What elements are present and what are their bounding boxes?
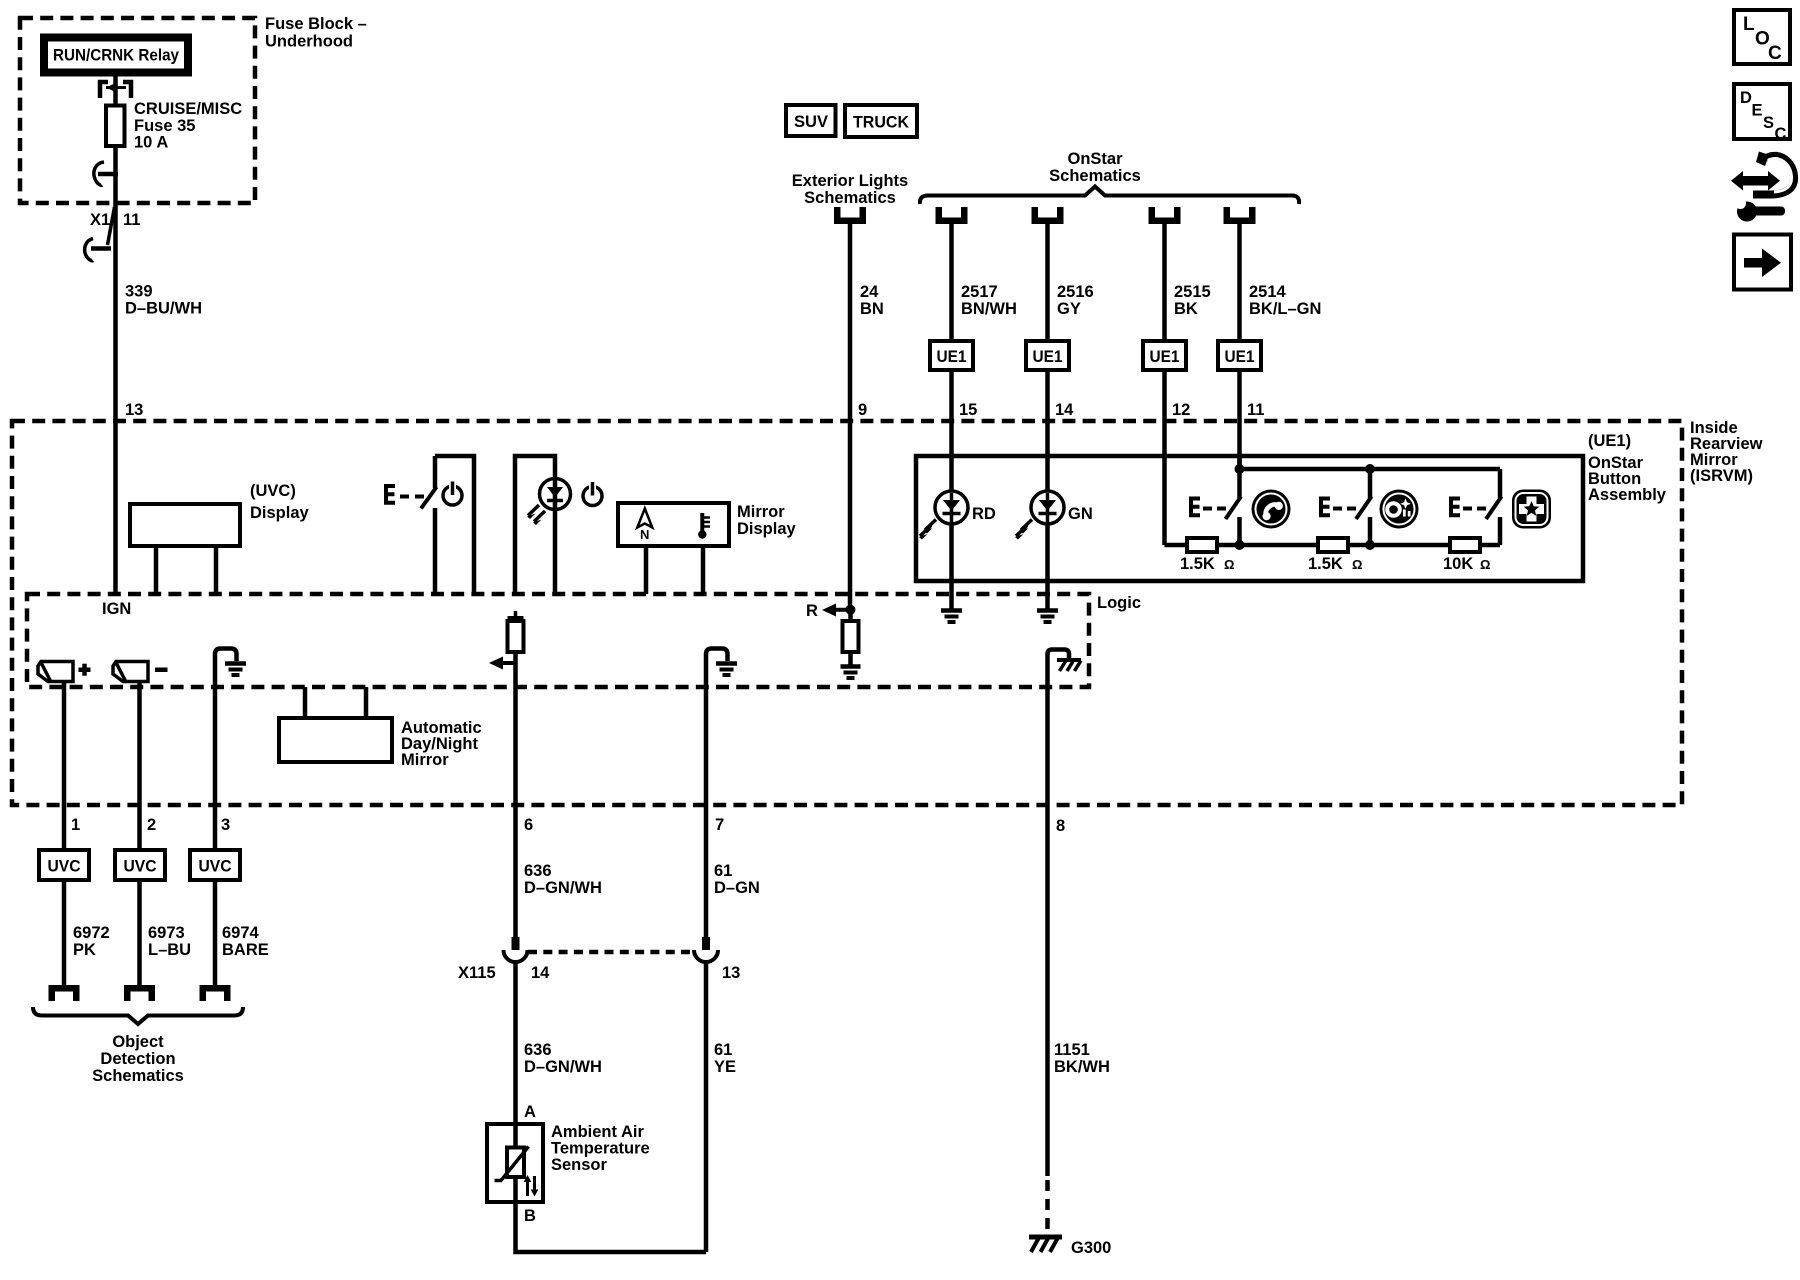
svg-text:Sensor: Sensor xyxy=(551,1156,608,1174)
svg-text:YE: YE xyxy=(714,1058,736,1076)
svg-text:IGN: IGN xyxy=(102,600,131,618)
ground (wire 9) xyxy=(841,667,861,679)
wire 2514 lower xyxy=(1237,370,1242,469)
off-page connector wire 2514 xyxy=(1224,207,1256,224)
fuse block underhood dashed box xyxy=(20,18,255,203)
automatic day/night mirror box xyxy=(279,718,392,762)
label 636 D-GN/WH upper xyxy=(524,862,602,897)
LED D1 (mirror) xyxy=(527,479,571,526)
off-page connector down (wire 6973) xyxy=(124,985,155,1001)
svg-text:10K: 10K xyxy=(1443,555,1473,573)
svg-text:R: R xyxy=(806,602,818,620)
pin 11 label xyxy=(1247,401,1264,419)
button OnStar icon xyxy=(1380,490,1419,529)
photo sensor minus xyxy=(113,662,168,682)
svg-text:OnStar: OnStar xyxy=(1067,150,1123,168)
off-page connector down (wire 6972) xyxy=(49,985,80,1001)
resistor R2 1.5K xyxy=(1318,538,1348,552)
wire 2516 GY upper xyxy=(1045,224,1050,341)
label Logic xyxy=(1097,594,1141,612)
svg-text:14: 14 xyxy=(1055,401,1074,419)
svg-text:11: 11 xyxy=(123,211,140,229)
svg-text:UE1: UE1 xyxy=(1033,348,1063,366)
mirror box legs to logic xyxy=(305,687,366,718)
svg-text:636: 636 xyxy=(524,1041,552,1059)
ambient air temperature sensor box xyxy=(487,1124,543,1202)
tag TRUCK xyxy=(845,105,917,137)
svg-text:1.5K: 1.5K xyxy=(1180,555,1215,573)
logic dashed box xyxy=(27,594,1089,687)
svg-text:UE1: UE1 xyxy=(1225,348,1255,366)
label Exterior Lights Schematics xyxy=(792,172,908,207)
svg-text:TRUCK: TRUCK xyxy=(853,114,909,132)
ground bars (wire 3) xyxy=(225,664,246,676)
connector UE1 (wire 2516) xyxy=(1026,341,1069,370)
connector UVC (wire 6972) xyxy=(39,805,89,985)
svg-text:Schematics: Schematics xyxy=(804,189,896,207)
label 2516 GY xyxy=(1057,283,1094,318)
wire 2515 lower xyxy=(1162,370,1167,545)
off-page connector for wire 24 xyxy=(834,207,866,224)
pin 9 label xyxy=(858,401,867,419)
svg-text:L–BU: L–BU xyxy=(148,941,191,959)
terminal symbol upper xyxy=(94,162,118,185)
svg-text:Detection: Detection xyxy=(100,1050,175,1068)
brace OnStar schematics xyxy=(920,187,1299,205)
svg-text:Fuse 35: Fuse 35 xyxy=(134,117,195,135)
wire 13 inside ISRVM xyxy=(113,421,118,594)
label 10K ohm xyxy=(1443,555,1490,573)
pin 15 label xyxy=(959,401,977,419)
wire fuse to X1 xyxy=(113,146,118,421)
icon LOC box xyxy=(1734,10,1790,64)
thermometer icon xyxy=(698,513,710,539)
svg-text:Mirror: Mirror xyxy=(737,503,785,521)
fuse holder clip terminals xyxy=(100,82,131,98)
label RD xyxy=(972,505,996,523)
ISRVM inside rearview mirror dashed box xyxy=(12,421,1682,805)
label CRUISE/MISC Fuse 35 10 A xyxy=(134,100,242,152)
svg-text:Schematics: Schematics xyxy=(1049,167,1141,185)
pin B label xyxy=(524,1207,536,1225)
label 2514 BK/L-GN xyxy=(1249,283,1321,318)
svg-text:BARE: BARE xyxy=(222,941,269,959)
svg-text:14: 14 xyxy=(531,964,550,982)
svg-text:11: 11 xyxy=(1247,401,1264,419)
svg-text:BN: BN xyxy=(860,300,884,318)
svg-text:D: D xyxy=(1740,89,1752,107)
ground (wire 7) hook xyxy=(706,649,728,806)
LED RD xyxy=(919,491,968,540)
svg-text:(UE1): (UE1) xyxy=(1588,432,1631,450)
svg-text:15: 15 xyxy=(959,401,977,419)
connector UE1 (wire 2515) xyxy=(1143,341,1186,370)
svg-text:C: C xyxy=(1775,125,1787,143)
svg-text:D–GN/WH: D–GN/WH xyxy=(524,1058,602,1076)
switch E symbol (mirror) xyxy=(384,484,424,505)
button emergency cross icon xyxy=(1512,490,1551,529)
label GN xyxy=(1068,505,1093,523)
svg-text:1151: 1151 xyxy=(1054,1041,1090,1059)
ground bars (wire 7) xyxy=(716,664,737,676)
svg-text:RUN/CRNK Relay: RUN/CRNK Relay xyxy=(53,47,180,65)
label G300 xyxy=(1071,1239,1111,1257)
resistor R3 10K xyxy=(1450,538,1480,552)
label 6973 L-BU xyxy=(148,924,191,959)
svg-text:339: 339 xyxy=(125,283,153,301)
svg-text:PK: PK xyxy=(73,941,96,959)
ground (RD LED) xyxy=(941,611,962,623)
wire pin 1 xyxy=(62,682,67,805)
pin 14 label xyxy=(1055,401,1074,419)
label 1.5K ohm xyxy=(1180,555,1234,573)
label Inside Rearview Mirror (ISRVM) xyxy=(1690,419,1763,485)
svg-text:24: 24 xyxy=(860,283,879,301)
label Mirror Display xyxy=(737,503,797,538)
icon jump arrow with wrench xyxy=(1731,152,1794,222)
connector X115 pin 14 (male+female) xyxy=(504,937,528,1124)
power icon 2 xyxy=(583,482,602,506)
label (UE1) OnStar Button Assembly xyxy=(1588,432,1667,504)
wire RD LED to ground xyxy=(949,522,954,609)
label 61 D-GN xyxy=(714,862,760,897)
svg-text:D–GN/WH: D–GN/WH xyxy=(524,879,602,897)
label 2515 BK xyxy=(1174,283,1211,318)
svg-text:2514: 2514 xyxy=(1249,283,1287,301)
svg-text:1: 1 xyxy=(71,816,80,834)
brace object detection xyxy=(33,1007,243,1024)
switch SW1 (phone) xyxy=(1226,469,1242,545)
wire 9 resistor branch: R arrow xyxy=(806,602,856,620)
dashed wire to ground xyxy=(1045,1180,1050,1235)
mirror display box xyxy=(618,503,729,594)
svg-text:S: S xyxy=(1763,114,1774,132)
pin 13 label xyxy=(125,401,143,419)
svg-text:Underhood: Underhood xyxy=(265,33,353,51)
ground G300 xyxy=(1029,1237,1062,1252)
svg-text:Ω: Ω xyxy=(1480,557,1490,572)
svg-text:BK: BK xyxy=(1174,300,1198,318)
label 2517 BN/WH xyxy=(961,283,1017,318)
svg-text:Ambient Air: Ambient Air xyxy=(551,1123,644,1141)
node IGN xyxy=(102,600,131,618)
label 6974 BARE xyxy=(222,924,269,959)
svg-text:(UVC): (UVC) xyxy=(250,482,296,500)
LED pillar (mirror backlight) xyxy=(515,456,555,594)
svg-text:UVC: UVC xyxy=(48,858,81,876)
connector UVC (wire 6974) xyxy=(190,805,240,985)
pin A label xyxy=(524,1103,536,1121)
wire 2517 BN/WH upper xyxy=(949,224,954,341)
dashed connector link X115 xyxy=(528,950,694,955)
photo sensor plus xyxy=(38,662,91,682)
LED GN xyxy=(1015,491,1064,540)
bus wire top (assembly) xyxy=(1235,456,1501,474)
chassis ground hook (wire 8) xyxy=(1048,650,1082,1177)
switch S1 power (mirror) xyxy=(421,456,474,594)
pin 7 label xyxy=(715,816,724,834)
label X115 xyxy=(458,964,496,982)
svg-text:2: 2 xyxy=(147,816,156,834)
svg-text:9: 9 xyxy=(858,401,867,419)
switch SW3 (emergency) xyxy=(1486,469,1502,545)
thermistor feed resistor (wire 6) xyxy=(489,611,524,938)
off-page connector wire 2516 xyxy=(1032,207,1064,224)
resistor (photocell circuit) xyxy=(843,609,859,665)
pin 12 label xyxy=(1172,401,1190,419)
compass icon xyxy=(637,509,652,543)
svg-text:A: A xyxy=(524,1103,536,1121)
ground (GN LED) xyxy=(1037,611,1058,623)
svg-text:UE1: UE1 xyxy=(937,348,967,366)
tag SUV xyxy=(786,105,836,136)
svg-text:B: B xyxy=(524,1207,536,1225)
svg-text:Display: Display xyxy=(737,520,797,538)
svg-text:2515: 2515 xyxy=(1174,283,1211,301)
wire GN LED to ground xyxy=(1045,522,1050,609)
svg-text:Ω: Ω xyxy=(1224,557,1234,572)
wire 24 BN xyxy=(848,224,853,610)
resistor network row xyxy=(1165,540,1501,550)
label 6972 PK xyxy=(73,924,110,959)
wire 2517 lower xyxy=(949,370,954,491)
wire loop sensor to pin 13 xyxy=(516,1202,707,1252)
svg-text:BN/WH: BN/WH xyxy=(961,300,1017,318)
svg-text:2516: 2516 xyxy=(1057,283,1094,301)
OnStar button assembly box xyxy=(916,456,1583,581)
svg-text:7: 7 xyxy=(715,816,724,834)
svg-text:6972: 6972 xyxy=(73,924,110,942)
svg-text:D–GN: D–GN xyxy=(714,879,760,897)
off-page connector down (wire 6974) xyxy=(200,985,231,1001)
svg-text:RD: RD xyxy=(972,505,996,523)
label 13 xyxy=(722,964,740,982)
ground (wire 3) hook xyxy=(215,649,237,806)
switch E symbol 3 xyxy=(1449,497,1486,518)
label 14 xyxy=(531,964,550,982)
svg-text:BK/WH: BK/WH xyxy=(1054,1058,1110,1076)
svg-text:3: 3 xyxy=(221,816,230,834)
svg-text:Display: Display xyxy=(250,504,310,522)
svg-text:L: L xyxy=(1743,14,1755,35)
off-page connector wire 2515 xyxy=(1149,207,1181,224)
relay K: RUN/CRNK Relay xyxy=(40,34,192,77)
wire 2514 BK/L-GN upper xyxy=(1237,224,1242,341)
svg-text:SUV: SUV xyxy=(794,113,828,131)
svg-text:C: C xyxy=(1768,43,1782,64)
svg-text:6: 6 xyxy=(524,816,533,834)
svg-text:UVC: UVC xyxy=(199,858,232,876)
wire relay to fuse xyxy=(113,77,118,107)
connector UE1 (wire 2514) xyxy=(1218,341,1261,370)
svg-text:Object: Object xyxy=(112,1033,164,1051)
power icon 1 xyxy=(443,482,462,506)
label 61 YE xyxy=(714,1041,736,1076)
svg-text:CRUISE/MISC: CRUISE/MISC xyxy=(134,100,242,118)
thermistor symbol xyxy=(495,1147,539,1197)
svg-text:2517: 2517 xyxy=(961,283,998,301)
icon forward arrow box xyxy=(1734,235,1791,290)
svg-text:12: 12 xyxy=(1172,401,1190,419)
svg-text:8: 8 xyxy=(1056,817,1065,835)
svg-text:Temperature: Temperature xyxy=(551,1140,650,1158)
svg-text:X115: X115 xyxy=(458,964,496,982)
svg-text:(ISRVM): (ISRVM) xyxy=(1690,467,1753,485)
label 1151 BK/WH xyxy=(1054,1041,1110,1076)
svg-text:D–BU/WH: D–BU/WH xyxy=(125,300,202,318)
svg-text:13: 13 xyxy=(125,401,143,419)
pin 6 label xyxy=(524,816,533,834)
svg-text:Logic: Logic xyxy=(1097,594,1141,612)
icon DESC box xyxy=(1734,84,1790,143)
svg-text:10 A: 10 A xyxy=(134,134,168,152)
svg-text:Mirror: Mirror xyxy=(401,751,449,769)
switch SW2 (OnStar) xyxy=(1356,469,1372,545)
svg-text:BK/L–GN: BK/L–GN xyxy=(1249,300,1321,318)
wire 2515 BK upper xyxy=(1162,224,1167,341)
svg-text:6974: 6974 xyxy=(222,924,260,942)
svg-text:UVC: UVC xyxy=(124,858,157,876)
label (UVC) Display xyxy=(250,482,310,522)
resistor R1 1.5K xyxy=(1187,538,1217,552)
svg-text:G300: G300 xyxy=(1071,1239,1111,1257)
connector UVC (wire 6973) xyxy=(115,805,165,985)
svg-text:GN: GN xyxy=(1068,505,1093,523)
terminal symbol lower xyxy=(85,239,111,261)
svg-text:61: 61 xyxy=(714,862,732,880)
svg-text:Exterior Lights: Exterior Lights xyxy=(792,172,908,190)
svg-text:N: N xyxy=(640,527,649,542)
wire pin 2 xyxy=(137,682,142,805)
label 1.5K ohm (2) xyxy=(1308,555,1362,573)
svg-text:Schematics: Schematics xyxy=(92,1067,184,1085)
label OnStar Schematics xyxy=(1049,150,1141,185)
off-page connector wire 2517 xyxy=(936,207,968,224)
fuse F35: CRUISE/MISC Fuse 35 10A xyxy=(106,106,125,147)
svg-text:61: 61 xyxy=(714,1041,732,1059)
svg-text:Fuse Block –: Fuse Block – xyxy=(265,15,367,33)
svg-text:Ω: Ω xyxy=(1352,557,1362,572)
switch E symbol 2 xyxy=(1319,497,1356,518)
wire 7 upper (61 D-GN) xyxy=(704,805,709,938)
wire 2516 lower xyxy=(1045,370,1050,491)
svg-text:Assembly: Assembly xyxy=(1588,486,1667,504)
svg-text:GY: GY xyxy=(1057,300,1081,318)
button phone icon xyxy=(1252,490,1291,529)
svg-text:E: E xyxy=(1752,102,1763,120)
switch E symbol 1 xyxy=(1189,497,1226,518)
pin 8 label xyxy=(1056,817,1065,835)
label 24 BN xyxy=(860,283,884,318)
wire 339 D-BU/WH label xyxy=(125,283,202,318)
connector X115 pin 13 (male+female) xyxy=(694,937,718,1252)
svg-text:X1: X1 xyxy=(90,211,110,229)
label 636 D-GN/WH lower xyxy=(524,1041,602,1076)
connector UE1 (wire 2517) xyxy=(930,341,973,370)
pin labels 1 2 3 xyxy=(71,816,230,834)
svg-text:1.5K: 1.5K xyxy=(1308,555,1343,573)
label Automatic Day/Night Mirror xyxy=(401,719,482,769)
svg-text:6973: 6973 xyxy=(148,924,185,942)
label Object Detection Schematics xyxy=(92,1033,184,1085)
svg-text:UE1: UE1 xyxy=(1150,348,1180,366)
label Ambient Air Temperature Sensor xyxy=(551,1123,650,1174)
label Fuse Block - Underhood xyxy=(265,15,367,51)
svg-text:636: 636 xyxy=(524,862,552,880)
svg-text:13: 13 xyxy=(722,964,740,982)
display UVC xyxy=(130,504,240,594)
connector X1 pin 11 xyxy=(90,207,140,245)
